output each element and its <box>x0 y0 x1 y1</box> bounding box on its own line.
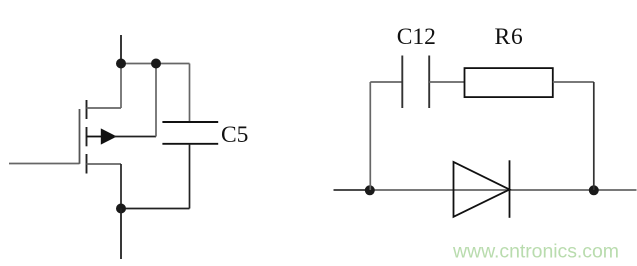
wire capacitor bottom lead <box>121 144 190 209</box>
node right junction dot <box>589 185 599 195</box>
wire left riser <box>369 82 371 190</box>
transistor MOSFET body arrow <box>87 128 117 144</box>
watermark www.cntronics.com <box>452 241 619 263</box>
svg-text:C5: C5 <box>221 122 248 148</box>
capacitor C5 <box>162 122 218 144</box>
wire riser to capacitor C12 <box>370 81 402 83</box>
wire source lead <box>87 164 122 209</box>
svg-text:www.cntronics.com: www.cntronics.com <box>452 241 619 263</box>
label R6 <box>494 24 523 50</box>
transistor MOSFET gate plate <box>79 109 81 164</box>
resistor R6 <box>465 68 553 97</box>
wire left stub right circuit <box>334 189 370 191</box>
label C12 <box>397 24 436 50</box>
diode <box>454 160 510 218</box>
wire drain lead <box>87 64 122 109</box>
node left junction dot <box>365 185 375 195</box>
wire bottom terminal stub <box>120 209 122 260</box>
wire main bottom rail <box>370 189 637 191</box>
node junction dot 2 <box>151 59 161 69</box>
svg-text:C12: C12 <box>397 24 436 50</box>
wire body to top node <box>114 64 156 137</box>
node junction dot 1 <box>116 59 126 69</box>
wire resistor R6 to right riser <box>553 81 594 83</box>
label C5 <box>221 122 248 148</box>
node junction dot 3 <box>116 204 126 214</box>
wire capacitor C12 to resistor R6 <box>429 81 464 83</box>
wire top rail <box>121 64 190 123</box>
wire right riser <box>593 82 595 190</box>
svg-text:R6: R6 <box>494 24 523 50</box>
wire top terminal stub <box>120 35 122 64</box>
capacitor C12 <box>402 56 429 109</box>
transistor MOSFET channel segments <box>86 100 88 174</box>
wire gate lead <box>9 163 80 165</box>
